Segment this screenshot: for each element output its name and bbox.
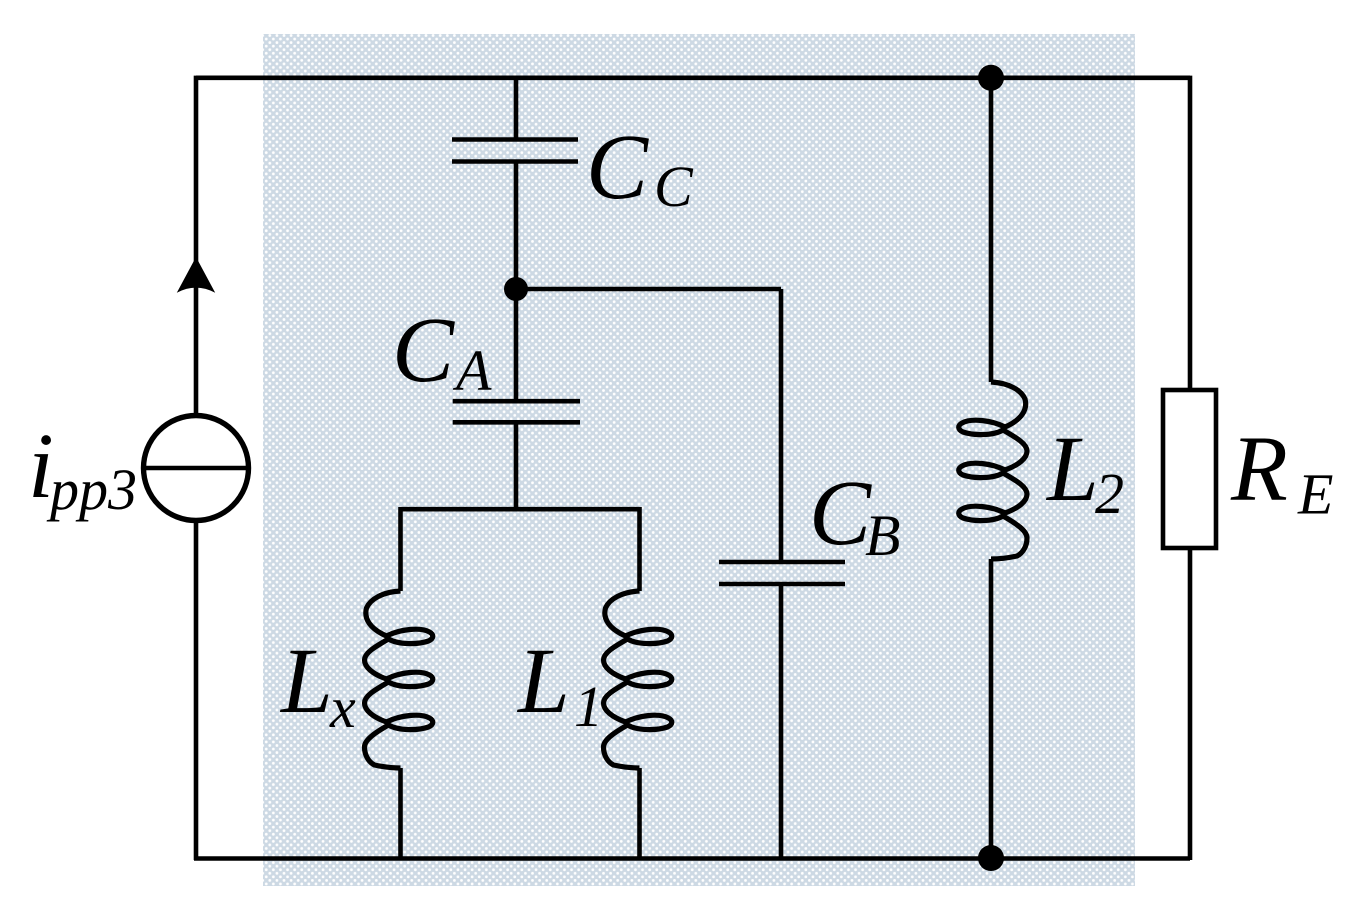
- svg-text:B: B: [865, 503, 900, 568]
- junction dot top rail / L2: [978, 65, 1004, 91]
- wire node A to C_B branch (horizontal): [516, 287, 781, 292]
- wire L2 to bottom junction: [989, 559, 994, 858]
- wire right rail lower segment: [1188, 546, 1193, 860]
- wire C_A to tee bar: [514, 422, 519, 509]
- wire L1 to bottom rail: [637, 768, 642, 858]
- current direction arrow: [177, 257, 215, 293]
- wire tee bar over Lx / L1: [401, 507, 640, 512]
- svg-text:L: L: [516, 630, 570, 733]
- svg-text:R: R: [1230, 418, 1288, 521]
- current source i_pp3 chord: [144, 466, 249, 471]
- svg-text:x: x: [329, 675, 356, 740]
- capacitor C_C top plate: [452, 137, 578, 142]
- wire left rail upper segment: [194, 76, 199, 415]
- capacitor C_B top plate: [719, 560, 845, 565]
- wire tee bar to Lx: [398, 507, 403, 591]
- inductor L1 coil: [604, 591, 672, 768]
- svg-text:pp3: pp3: [46, 457, 137, 522]
- wire C_B branch upper vertical: [779, 289, 784, 562]
- capacitor C_A top plate: [453, 399, 580, 404]
- wire top rail: [196, 76, 1190, 81]
- shaded resonator region panel: [263, 34, 1135, 886]
- capacitor C_C bottom plate: [452, 159, 578, 164]
- svg-text:C: C: [392, 299, 455, 402]
- capacitor C_B bottom plate: [719, 582, 845, 587]
- wire C_C to node A: [514, 162, 519, 290]
- junction dot bottom rail / L2: [978, 845, 1004, 871]
- wire tee bar to L1: [637, 507, 642, 591]
- svg-text:L: L: [1045, 418, 1099, 521]
- svg-text:1: 1: [574, 674, 603, 739]
- wire Lx to bottom rail: [398, 768, 403, 858]
- svg-text:C: C: [586, 116, 649, 219]
- wire right rail upper segment: [1188, 76, 1193, 392]
- wire top junction to L2: [989, 78, 994, 382]
- inductor L2 coil: [959, 382, 1027, 559]
- current source i_pp3 circle: [144, 416, 249, 521]
- resistor R_E body: [1163, 390, 1216, 548]
- svg-text:L: L: [279, 630, 333, 733]
- svg-text:C: C: [809, 462, 872, 565]
- svg-text:C: C: [654, 154, 694, 219]
- wire left rail lower segment: [194, 520, 199, 860]
- wire top rail to C_C: [514, 78, 519, 140]
- wire node A to C_A: [514, 289, 519, 401]
- svg-text:A: A: [452, 338, 492, 403]
- capacitor C_A bottom plate: [453, 420, 580, 425]
- node A junction dot: [504, 277, 528, 301]
- wire C_B to bottom rail: [779, 584, 784, 858]
- wire bottom rail: [194, 856, 1190, 861]
- inductor Lx coil: [365, 591, 433, 768]
- svg-text:E: E: [1297, 462, 1333, 527]
- svg-text:2: 2: [1095, 461, 1124, 526]
